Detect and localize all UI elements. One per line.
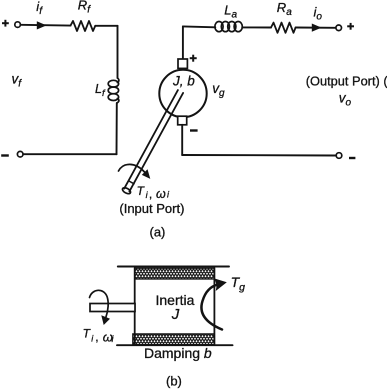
svg-text:Rf: Rf (78, 0, 91, 15)
svg-text:(b): (b) (166, 374, 182, 389)
svg-text:(Input Port): (Input Port) (119, 201, 184, 216)
svg-text:vo: vo (339, 91, 352, 109)
svg-text:io: io (314, 5, 323, 23)
svg-text:Damping b: Damping b (144, 345, 212, 361)
svg-text:ω: ω (156, 187, 166, 201)
svg-text:if: if (36, 0, 43, 17)
svg-text:Tg: Tg (231, 274, 246, 294)
svg-text:vg: vg (212, 81, 225, 99)
svg-text:,: , (95, 330, 98, 344)
svg-text:T: T (137, 184, 146, 198)
svg-text:i: i (112, 334, 115, 344)
svg-text:Lf: Lf (95, 82, 106, 99)
svg-text:(a): (a) (150, 225, 166, 240)
svg-text:T: T (83, 327, 92, 341)
svg-text:J, b: J, b (172, 74, 195, 89)
svg-text:Ra: Ra (277, 0, 292, 18)
svg-text:J: J (171, 306, 180, 323)
svg-text:La: La (224, 3, 237, 21)
svg-text:i: i (167, 190, 170, 200)
svg-text:i: i (91, 333, 94, 343)
svg-text:(Output Port) (: (Output Port) ( (306, 74, 387, 89)
svg-text:,: , (149, 187, 152, 201)
svg-text:vf: vf (12, 72, 23, 90)
